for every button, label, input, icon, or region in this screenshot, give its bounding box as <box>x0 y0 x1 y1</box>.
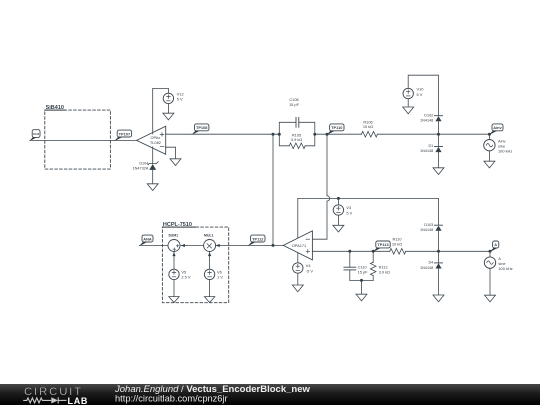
wire OPA171 V+ pin to 5V rail <box>297 198 299 238</box>
junction at Ainv node <box>488 133 491 136</box>
resistor R110 10 kOhm <box>390 237 406 255</box>
wire Ainv source to ground <box>488 151 490 161</box>
diode D1 1N4148 <box>420 134 443 168</box>
junction at V3 <box>337 197 340 200</box>
ground under D104 <box>147 184 158 191</box>
wire R110 to lower clamp junction <box>406 250 490 252</box>
svg-text:5 V: 5 V <box>417 92 423 97</box>
svg-text:3.9 kΩ: 3.9 kΩ <box>379 269 390 274</box>
svg-text:1N4148: 1N4148 <box>420 228 433 232</box>
svg-text:2.5 V: 2.5 V <box>181 275 190 280</box>
resistor R112 3.9 kOhm <box>370 251 390 280</box>
svg-text:OPA171: OPA171 <box>292 243 306 248</box>
wire A source to ground <box>489 268 491 295</box>
svg-text:D104: D104 <box>139 161 148 165</box>
wire OPA171 + input run to R110 <box>312 250 389 252</box>
svg-text:CH2: CH2 <box>33 132 39 136</box>
svg-text:1N4732A: 1N4732A <box>133 167 149 171</box>
ground under A source <box>485 295 496 302</box>
svg-text:TP110: TP110 <box>331 125 342 130</box>
wire V12 to ground <box>167 104 169 114</box>
svg-text:10 kΩ: 10 kΩ <box>363 124 373 129</box>
ground under V5 <box>169 297 179 303</box>
junction at A node <box>489 250 492 253</box>
svg-text:3.9 kΩ: 3.9 kΩ <box>291 137 302 142</box>
wire TP110 node down to OPA171 - input (with hop over 5V rail) <box>312 134 329 239</box>
net flag Ainv <box>489 124 503 135</box>
svg-text:1N4148: 1N4148 <box>420 149 433 153</box>
svg-text:TP112: TP112 <box>252 236 264 241</box>
wire OPA171 output to MUL1 input with arrow <box>216 244 284 247</box>
multiplier block MUL1 <box>204 234 216 252</box>
voltage source V12 5 V <box>163 91 184 103</box>
svg-text:Ainv: Ainv <box>493 125 502 130</box>
capacitor C110 15 pF <box>344 251 368 280</box>
wire TL082 inverting input to ground <box>166 147 176 159</box>
ground under D1 <box>433 168 444 175</box>
svg-text:D1: D1 <box>428 144 433 148</box>
source Ainv sine 100 kHz <box>484 139 513 154</box>
wire TL082 V+ pin to V12 <box>153 88 169 133</box>
diode D102 1N4148 <box>420 114 443 135</box>
wire D104 to ground <box>152 170 154 184</box>
ground under V12 <box>163 113 174 120</box>
bottom wire C110/R112 to ground <box>350 279 373 294</box>
ground under V10 <box>403 107 414 114</box>
ground under C110/R112 <box>356 294 367 301</box>
wire V6 to MUL1 with arrow <box>208 252 211 269</box>
wire V5 to SUM1 with arrow <box>172 252 175 269</box>
module box HCPL-7510 <box>162 222 228 303</box>
svg-text:SUM1: SUM1 <box>168 234 178 238</box>
diode D4 1N4148 <box>420 251 443 295</box>
test point TP112 <box>248 235 266 246</box>
svg-text:15 pF: 15 pF <box>358 269 369 274</box>
5V rail to clamp <box>298 198 439 225</box>
module box SiB410 <box>45 105 111 169</box>
svg-text:1 V: 1 V <box>217 275 223 280</box>
ground under V6 <box>204 297 214 303</box>
ground under D4 <box>433 295 444 302</box>
summing block SUM1 <box>168 234 180 252</box>
zener diode D104 1N4732A <box>133 161 159 170</box>
ground under V3 <box>333 225 344 232</box>
svg-text:TP107: TP107 <box>119 131 130 136</box>
svg-text:D102: D102 <box>424 114 433 118</box>
voltage source V3 5 V <box>333 198 352 215</box>
wire V6 to ground <box>209 280 211 297</box>
svg-text:MUL1: MUL1 <box>204 234 214 238</box>
net flag CH2 <box>29 130 40 142</box>
svg-text:TP113: TP113 <box>377 242 389 247</box>
svg-text:15 pF: 15 pF <box>289 102 300 107</box>
svg-text:D4: D4 <box>428 261 433 265</box>
CircuitLab logo resistor-diode glyph <box>23 397 66 403</box>
junction at feedback node <box>272 133 275 136</box>
junction at lower clamp node <box>437 250 440 253</box>
svg-text:HCPL-7510: HCPL-7510 <box>163 222 192 228</box>
test point TP113 <box>373 241 390 252</box>
vertical wire feedback node to OPA171 output <box>272 134 274 245</box>
capacitor C106 15 pF (top branch of RC block) <box>279 97 315 134</box>
svg-text:D103: D103 <box>424 223 433 227</box>
svg-text:http://circuitlab.com/cpnz6jr: http://circuitlab.com/cpnz6jr <box>115 394 228 404</box>
svg-text:10 kΩ: 10 kΩ <box>392 241 402 246</box>
source A sine 100 kHz <box>484 256 512 271</box>
svg-text:5 V: 5 V <box>346 210 352 215</box>
test point TP108 <box>191 124 209 135</box>
test point TP107 <box>114 130 131 141</box>
net flag A <box>490 241 499 252</box>
wire ANA to SUM1 <box>139 245 168 247</box>
diode D103 1N4148 <box>420 223 443 251</box>
footer bar <box>0 384 540 405</box>
wire V5 to ground <box>173 280 175 297</box>
junction at TP110 node <box>326 133 329 136</box>
resistor R106 10 kOhm <box>361 119 377 137</box>
junction at R112 <box>372 250 375 253</box>
net flag ANA <box>139 235 153 246</box>
wire A node to source <box>489 251 491 257</box>
svg-text:100 kHz: 100 kHz <box>498 266 512 271</box>
op-amp U1 TL082 <box>137 126 166 154</box>
wire Ainv node to source <box>488 134 490 139</box>
svg-text:SiB410: SiB410 <box>46 105 64 111</box>
voltage source V10 5 V <box>403 87 424 99</box>
voltage source V6 1 V <box>204 269 223 280</box>
wire R106 to clamp junction <box>377 133 489 135</box>
wire MUL1 output to SUM1 input with arrow <box>181 244 204 247</box>
voltage source V4 -5 V <box>293 263 314 274</box>
wire CH2 to TL082 output <box>30 139 137 141</box>
ground under V4 <box>292 285 303 292</box>
ground under Ainv source <box>484 161 495 168</box>
wire TL082 V- pin to zener D104 <box>152 147 154 164</box>
svg-text:TL082: TL082 <box>150 140 161 145</box>
junction at OPA171 output <box>272 244 275 247</box>
wire OPA171 V- pin to V4 <box>297 253 299 263</box>
voltage source V5 2.5 V <box>169 269 191 280</box>
op-amp U2 OPA171 <box>283 231 312 260</box>
ground at TL082 inverting input <box>170 159 181 166</box>
svg-text:1N4148: 1N4148 <box>420 266 433 270</box>
test point TP110 <box>327 124 345 135</box>
wire RC block to R106 <box>315 133 362 135</box>
wire V10 rail to D102 <box>408 75 438 115</box>
junction left of RC block <box>278 133 281 136</box>
wire V10 to ground <box>407 99 409 107</box>
svg-text:1N4148: 1N4148 <box>420 119 433 123</box>
junction right of RC block <box>313 133 316 136</box>
wire V3 to ground <box>337 215 339 225</box>
junction at C110 <box>348 250 351 253</box>
wire TL082 + input to RC feedback network <box>166 133 280 135</box>
svg-text:-5 V: -5 V <box>306 268 314 273</box>
resistor R105 3.9 kOhm (bottom branch of RC block) <box>279 132 315 148</box>
svg-text:ANA: ANA <box>143 236 152 241</box>
svg-text:A: A <box>494 242 497 247</box>
wire V4 to ground <box>297 273 299 285</box>
junction at top clamp node <box>437 133 440 136</box>
svg-text:LAB: LAB <box>68 396 89 405</box>
svg-text:5 V: 5 V <box>177 97 183 102</box>
svg-text:100 kHz: 100 kHz <box>498 149 512 154</box>
svg-text:TP108: TP108 <box>196 125 208 130</box>
